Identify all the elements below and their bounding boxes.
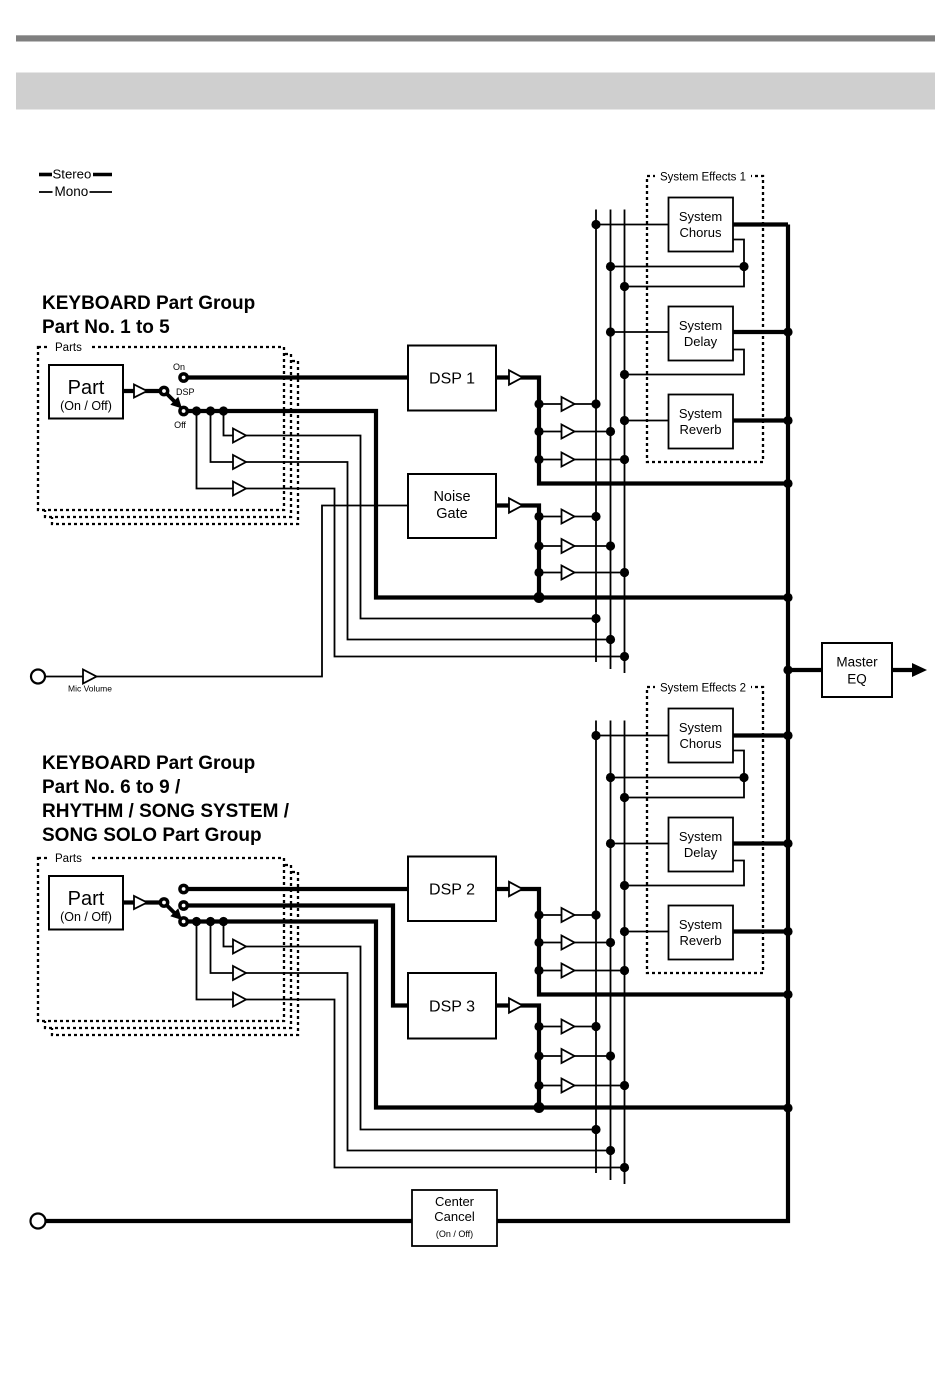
buffer amp DSP 2 output xyxy=(509,882,523,896)
buffer amp DSP1 send chorus xyxy=(562,397,575,411)
svg-text:KEYBOARD Part Group: KEYBOARD Part Group xyxy=(42,293,255,314)
wire DSP1 send to reverb bus xyxy=(539,459,625,461)
noise gate block xyxy=(408,474,496,538)
wire reverb bus to system reverb 2 input xyxy=(625,931,669,933)
svg-text:Master: Master xyxy=(836,655,878,670)
wire reverb bus to system reverb 1 input xyxy=(625,420,669,422)
buffer amp DSP2 send chorus xyxy=(562,908,575,922)
mic volume buffer amp xyxy=(83,670,97,684)
switch 1 On contact xyxy=(178,372,189,383)
wire system chorus 1 output to mix rail (stereo) xyxy=(733,222,788,226)
buffer amp DSP3 send delay xyxy=(562,1049,575,1063)
buffer amp NG send chorus xyxy=(562,510,575,524)
buffer amp noise gate output xyxy=(509,498,523,512)
wire DSP2 send to delay bus xyxy=(539,942,611,944)
wire system delay 1 send to reverb bus xyxy=(625,350,745,375)
switch 2 pivot contact xyxy=(159,897,170,908)
wire DSP 1 output to bus vertical (stereo) xyxy=(496,378,788,484)
buffer amp NG send reverb xyxy=(562,566,575,580)
svg-text:System: System xyxy=(679,318,722,333)
wire mix rail to master EQ input (stereo) xyxy=(788,668,822,672)
center cancel block xyxy=(412,1190,497,1246)
svg-text:Part No. 1 to 5: Part No. 1 to 5 xyxy=(42,317,170,338)
svg-text:(On / Off): (On / Off) xyxy=(60,399,112,413)
legend stereo thick line sample (left) xyxy=(39,173,52,177)
DSP 3 block xyxy=(408,973,496,1039)
legend mono thin line sample (right) xyxy=(90,191,113,193)
buffer amp NG send delay xyxy=(562,539,575,553)
wire part 1 output to switch pivot xyxy=(123,389,164,393)
system reverb 2 block xyxy=(669,906,734,960)
wire switch1 bottom position direct line (stereo) xyxy=(184,411,788,598)
wire system delay 2 send to reverb bus xyxy=(625,861,745,886)
buffer amp DSP3 send reverb xyxy=(562,1079,575,1093)
svg-text:Part: Part xyxy=(68,888,105,910)
wire system chorus 2 send to reverb bus xyxy=(625,778,745,798)
wire switch2 middle position to DSP 3 input (stereo) xyxy=(184,906,408,1006)
system effects 2 dashed box xyxy=(647,687,763,973)
junction dot noise gate joins direct line xyxy=(534,592,545,603)
buffer amp DSP1 send reverb xyxy=(562,453,575,467)
buffer amp part1 tap 1 xyxy=(233,429,246,443)
wire system chorus 2 output to mix rail (stereo) xyxy=(733,733,788,737)
wire delay bus to system delay 1 input xyxy=(611,331,669,333)
switch 2 middle contact xyxy=(178,900,189,911)
svg-text:Reverb: Reverb xyxy=(680,422,722,437)
svg-text:SONG SOLO Part Group: SONG SOLO Part Group xyxy=(42,825,262,846)
wire DSP2 send to reverb bus xyxy=(539,970,625,972)
svg-text:Parts: Parts xyxy=(55,342,82,354)
svg-text:DSP: DSP xyxy=(176,387,195,397)
system effects 1 dashed box xyxy=(647,176,763,462)
parts label background (section 2) xyxy=(49,850,90,864)
wire DSP 2 output to bus vertical (stereo) xyxy=(496,889,788,995)
svg-text:Off: Off xyxy=(174,420,186,430)
buffer amp part1 tap 2 xyxy=(233,455,246,469)
buffer amp part1 tap 3 xyxy=(233,482,246,496)
buffer amp part2 tap 3 xyxy=(233,993,246,1007)
junction dots on DSP1 output vertical xyxy=(534,399,543,408)
main stereo mix rail xyxy=(497,225,788,1222)
wire switch2 bottom position direct line (stereo) xyxy=(184,922,788,1108)
header light gray title bar xyxy=(16,73,935,110)
svg-text:EQ: EQ xyxy=(847,672,867,687)
wire noise gate send to delay bus xyxy=(539,545,611,547)
wire DSP3 send to delay bus xyxy=(539,1055,611,1057)
wire chorus bus to system chorus 1 input xyxy=(596,224,669,226)
wire part1 tap 2 to delay bus xyxy=(211,411,611,640)
junction dots on delay bus rail 2 xyxy=(606,773,615,782)
parts group dashed box 1 (section 2) xyxy=(38,858,284,1021)
wire switch1 On position to DSP 1 input (stereo) xyxy=(184,375,408,379)
wire system chorus 1 send to reverb bus xyxy=(625,267,745,287)
svg-text:Delay: Delay xyxy=(684,334,718,349)
chorus bus rail (section 2) xyxy=(595,721,597,1174)
buffer amp DSP 1 output xyxy=(509,370,523,384)
wire noise gate send to chorus bus xyxy=(539,516,596,518)
wire DSP1 send to delay bus xyxy=(539,431,611,433)
svg-text:(On / Off): (On / Off) xyxy=(436,1229,473,1239)
svg-text:Part: Part xyxy=(68,377,105,399)
parts group stacked dashed box 2 (section 1) xyxy=(45,354,291,517)
svg-text:System Effects 1: System Effects 1 xyxy=(660,172,746,184)
buffer amp DSP2 send reverb xyxy=(562,964,575,978)
svg-text:Center: Center xyxy=(435,1194,475,1209)
junction dots on chorus bus rail 2 xyxy=(591,731,600,740)
wire part2 tap 2 to delay bus xyxy=(211,922,611,1151)
reverb bus rail (section 2) xyxy=(624,721,626,1185)
wire mic volume to noise gate input xyxy=(45,506,408,677)
system reverb 1 block xyxy=(669,395,734,449)
wire DSP3 send to reverb bus xyxy=(539,1085,625,1087)
junction dots on reverb bus rail 1 xyxy=(620,282,629,291)
buffer amp part2 tap 2 xyxy=(233,966,246,980)
wire noise gate send to reverb bus xyxy=(539,572,625,574)
svg-text:Mic Volume: Mic Volume xyxy=(68,684,112,694)
svg-text:DSP 1: DSP 1 xyxy=(429,371,475,388)
svg-text:Gate: Gate xyxy=(436,506,467,522)
center cancel input terminal circle xyxy=(31,1214,46,1229)
buffer amp DSP1 send delay xyxy=(562,425,575,439)
svg-text:Chorus: Chorus xyxy=(680,225,722,240)
svg-text:System: System xyxy=(679,829,722,844)
svg-text:System: System xyxy=(679,406,722,421)
junction dots on main mix rail xyxy=(783,327,792,336)
system chorus 1 block xyxy=(669,198,734,252)
master EQ output arrowhead xyxy=(912,663,927,677)
junction dots on noise gate output vertical xyxy=(534,512,543,521)
junction dots on DSP3 output vertical xyxy=(534,1022,543,1031)
reverb bus rail (section 1) xyxy=(624,210,626,674)
legend mono thin line sample (left) xyxy=(39,191,53,193)
parts group stacked dashed box 2 (section 2) xyxy=(45,865,291,1028)
svg-text:KEYBOARD Part Group: KEYBOARD Part Group xyxy=(42,753,255,774)
parts label background (section 1) xyxy=(49,339,90,353)
svg-text:Cancel: Cancel xyxy=(434,1209,475,1224)
master EQ block xyxy=(822,643,892,697)
wire noise gate output vertical (stereo) xyxy=(496,506,539,598)
svg-text:Noise: Noise xyxy=(433,489,470,505)
system delay 1 block xyxy=(669,307,734,361)
svg-text:System Effects 2: System Effects 2 xyxy=(660,683,746,695)
switch 1 pivot contact xyxy=(159,386,170,397)
wire system reverb 1 output to mix rail (stereo) xyxy=(733,418,788,422)
wire system chorus 1 send to delay bus xyxy=(611,240,745,267)
wire part2 tap 1 to chorus bus xyxy=(224,922,597,1130)
svg-text:Mono: Mono xyxy=(55,184,89,199)
wire delay bus to system delay 2 input xyxy=(611,843,669,845)
svg-text:Parts: Parts xyxy=(55,853,82,865)
wire system delay 2 output to mix rail (stereo) xyxy=(733,841,788,845)
switch 2 bottom contact xyxy=(178,916,189,927)
wire part1 tap 3 to reverb bus xyxy=(197,411,625,657)
wire switch2 top position to DSP 2 input (stereo) xyxy=(184,887,408,891)
system effects 2 label background xyxy=(655,680,751,694)
junction dots on switch1 direct line xyxy=(192,406,201,415)
svg-text:System: System xyxy=(679,917,722,932)
svg-text:Part No. 6 to 9 /: Part No. 6 to 9 / xyxy=(42,777,181,798)
wire part 2 output to switch pivot xyxy=(123,900,164,904)
svg-text:On: On xyxy=(173,362,185,372)
buffer amp part2 tap 1 xyxy=(233,940,246,954)
buffer amp DSP 3 output xyxy=(509,998,523,1012)
wire part1 tap 1 to chorus bus xyxy=(224,411,597,619)
wire master EQ output (stereo) xyxy=(892,668,914,672)
svg-text:Reverb: Reverb xyxy=(680,933,722,948)
junction dots on switch2 direct line xyxy=(192,917,201,926)
svg-text:Chorus: Chorus xyxy=(680,736,722,751)
DSP 2 block xyxy=(408,857,496,922)
delay bus rail (section 1) xyxy=(610,210,612,670)
svg-text:RHYTHM / SONG SYSTEM /: RHYTHM / SONG SYSTEM / xyxy=(42,801,290,822)
wire system reverb 2 output to mix rail (stereo) xyxy=(733,929,788,933)
DSP 1 block xyxy=(408,346,496,411)
mic input terminal circle xyxy=(31,670,45,684)
wire chorus bus to system chorus 2 input xyxy=(596,735,669,737)
junction dots on reverb bus rail 2 xyxy=(620,793,629,802)
parts group dashed box 1 (section 1) xyxy=(38,347,284,510)
buffer amp after part 2 xyxy=(134,896,147,909)
svg-text:Stereo: Stereo xyxy=(53,167,92,182)
buffer amp DSP2 send delay xyxy=(562,936,575,950)
chorus bus rail (section 1) xyxy=(595,210,597,663)
wire system delay 1 output to mix rail (stereo) xyxy=(733,330,788,334)
header rule dark gray bar xyxy=(16,35,935,41)
wire DSP3 send to chorus bus xyxy=(539,1026,596,1028)
wire center cancel input (stereo) xyxy=(45,1219,412,1223)
junction dots on delay bus rail 1 xyxy=(606,262,615,271)
switch 1 lever with arrow xyxy=(164,391,175,402)
parts group stacked dashed box 3 (section 1) xyxy=(52,361,298,524)
system delay 2 block xyxy=(669,818,734,872)
junction dots on chorus bus rail 1 xyxy=(591,220,600,229)
buffer amp after part 1 xyxy=(134,385,147,398)
svg-text:(On / Off): (On / Off) xyxy=(60,910,112,924)
svg-text:Delay: Delay xyxy=(684,845,718,860)
junction dots on DSP2 output vertical xyxy=(534,910,543,919)
system chorus 2 block xyxy=(669,709,734,763)
part block (section 2) xyxy=(49,876,123,930)
wire DSP1 send to chorus bus xyxy=(539,403,596,405)
buffer amp DSP3 send chorus xyxy=(562,1020,575,1034)
wire part2 tap 3 to reverb bus xyxy=(197,922,625,1168)
part block (section 1) xyxy=(49,365,123,419)
wire system chorus 2 send to delay bus xyxy=(611,751,745,778)
system effects 1 label background xyxy=(655,169,751,183)
svg-text:System: System xyxy=(679,209,722,224)
switch 1 Off contact xyxy=(178,406,189,417)
svg-text:DSP 3: DSP 3 xyxy=(429,999,475,1016)
junction dot chorus 2 send tee xyxy=(739,773,748,782)
junction dot chorus 1 send tee xyxy=(739,262,748,271)
svg-text:System: System xyxy=(679,720,722,735)
delay bus rail (section 2) xyxy=(610,721,612,1181)
svg-text:DSP 2: DSP 2 xyxy=(429,882,475,899)
legend stereo thick line sample (right) xyxy=(93,173,112,177)
wire DSP 3 output vertical (stereo) xyxy=(496,1006,539,1108)
junction dot DSP3 joins direct line xyxy=(534,1102,545,1113)
parts group stacked dashed box 3 (section 2) xyxy=(52,872,298,1035)
switch 2 top contact xyxy=(178,884,189,895)
switch 2 lever with arrow xyxy=(164,903,175,914)
wire DSP2 send to chorus bus xyxy=(539,914,596,916)
